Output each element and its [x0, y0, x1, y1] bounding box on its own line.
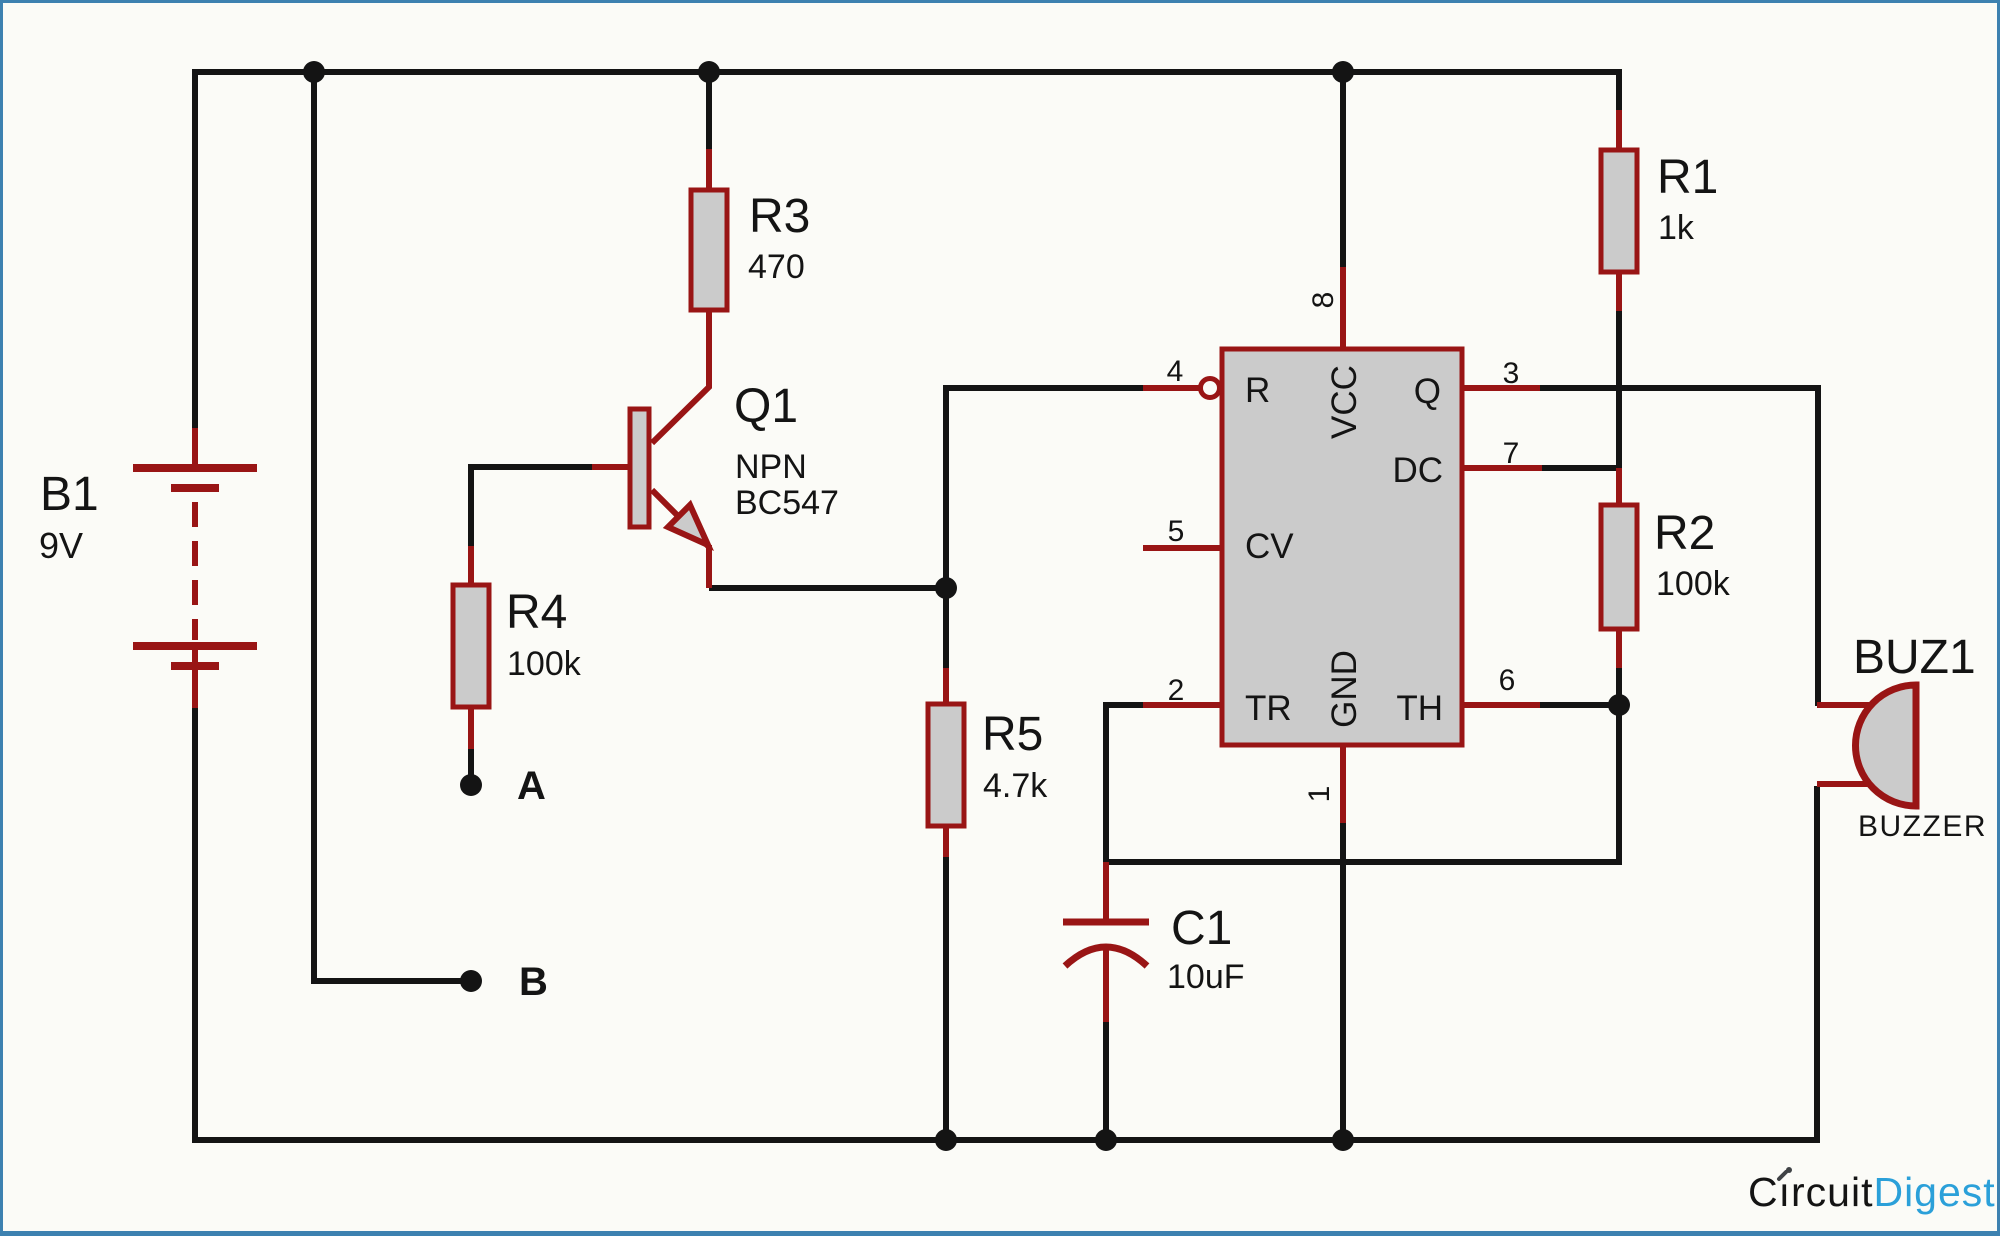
pin 7 DC stub: [1462, 465, 1542, 471]
svg-text:C1: C1: [1171, 902, 1232, 955]
wire: Q output to buzzer top: [1540, 388, 1818, 706]
svg-text:2: 2: [1168, 674, 1185, 707]
resistor R2: [1601, 468, 1637, 668]
svg-text:R1: R1: [1657, 151, 1718, 204]
svg-text:B: B: [519, 960, 548, 1004]
svg-text:BUZZER: BUZZER: [1858, 810, 1987, 843]
wire: R5 top black: [943, 588, 949, 668]
junction top rail R3: [698, 61, 720, 83]
pin 4 R stub: [1143, 385, 1200, 391]
junction ground R5: [935, 1129, 957, 1151]
junction emitter/R5/pin4: [935, 577, 957, 599]
wire: reset net from emitter junction up to pin 4: [946, 388, 1143, 588]
svg-text:4.7k: 4.7k: [983, 767, 1048, 805]
svg-text:CırcuitDigest: CırcuitDigest: [1748, 1169, 1996, 1215]
svg-text:7: 7: [1503, 437, 1520, 470]
node A: [460, 774, 482, 796]
wire: bottom ground rail from battery to buzzer: [195, 706, 1817, 1140]
wire: TR wire black: [1106, 705, 1143, 862]
pin 2 TR stub: [1143, 702, 1222, 708]
wire: top rail with left drop to battery and right drop to R1: [195, 72, 1619, 431]
wire: junction down and left to TR/C1 node: [1106, 705, 1619, 862]
wire: R4 bottom to node A: [468, 749, 474, 779]
svg-text:B1: B1: [40, 468, 99, 521]
svg-text:1k: 1k: [1658, 209, 1695, 247]
pin 3 Q stub: [1462, 385, 1540, 391]
svg-text:5: 5: [1168, 515, 1185, 548]
wire: base wire to R4: [471, 467, 592, 546]
resistor R4: [453, 546, 489, 749]
junction top rail left: [303, 61, 325, 83]
svg-text:A: A: [517, 764, 546, 808]
svg-text:10uF: 10uF: [1167, 958, 1245, 996]
resistor R5: [928, 668, 964, 857]
svg-text:R4: R4: [506, 586, 567, 639]
battery B1: [133, 428, 257, 708]
resistor R1: [1601, 110, 1637, 311]
svg-text:1: 1: [1303, 786, 1336, 803]
svg-text:TH: TH: [1396, 689, 1443, 728]
svg-text:BUZ1: BUZ1: [1853, 631, 1976, 684]
buzzer BUZ1: [1817, 685, 1916, 806]
svg-text:BC547: BC547: [735, 484, 839, 522]
svg-text:R: R: [1245, 371, 1270, 410]
svg-text:GND: GND: [1325, 650, 1364, 728]
pin 1 GND stub: [1340, 745, 1346, 823]
svg-text:DC: DC: [1392, 451, 1443, 490]
pin 6 TH stub: [1462, 702, 1540, 708]
svg-text:CV: CV: [1245, 527, 1294, 566]
svg-text:6: 6: [1499, 664, 1516, 697]
op-amp U1 555 timer body: [1222, 349, 1462, 745]
svg-text:R5: R5: [982, 708, 1043, 761]
wire: pin6 black to junction: [1540, 702, 1619, 708]
svg-text:4: 4: [1167, 355, 1184, 388]
svg-text:8: 8: [1307, 292, 1340, 309]
svg-text:R2: R2: [1654, 507, 1715, 560]
svg-text:NPN: NPN: [735, 448, 807, 486]
pin 4 inversion bubble: [1201, 379, 1220, 398]
node B: [460, 970, 482, 992]
resistor R3: [652, 149, 727, 443]
svg-text:TR: TR: [1245, 689, 1292, 728]
junction ground GND pin: [1332, 1129, 1354, 1151]
svg-text:470: 470: [748, 248, 805, 286]
svg-text:VCC: VCC: [1325, 365, 1364, 439]
logo CircuitDigest: [1748, 1167, 1996, 1215]
wire: left inner branch down to node B: [314, 72, 468, 981]
svg-text:3: 3: [1503, 357, 1520, 390]
wire: R1 bottom vertical crossing Q wire: [1616, 311, 1622, 468]
capacitor C1: [1063, 862, 1149, 1022]
wire: VCC riser (pin 8) black part: [1340, 72, 1346, 267]
svg-text:R3: R3: [749, 190, 810, 243]
wire: R2 bottom black: [1616, 668, 1622, 705]
svg-text:9V: 9V: [39, 525, 83, 566]
pin 8 VCC stub: [1340, 267, 1346, 349]
junction R2/TH: [1608, 694, 1630, 716]
pin 5 CV stub: [1143, 545, 1222, 551]
transistor Q1: [592, 409, 709, 588]
junction ground C1: [1095, 1129, 1117, 1151]
wire: R5 bottom to ground rail: [943, 857, 949, 1140]
wire: C1 bottom black: [1103, 1022, 1109, 1140]
svg-text:Q1: Q1: [734, 380, 798, 433]
wire: pin7 black to R1/R2 branch: [1542, 465, 1619, 471]
wire: GND (pin 1) black: [1340, 823, 1346, 1140]
svg-text:100k: 100k: [507, 645, 582, 683]
junction top rail VCC: [1332, 61, 1354, 83]
wire: emitter node horizontal: [709, 585, 946, 591]
svg-text:Q: Q: [1414, 372, 1441, 411]
svg-text:100k: 100k: [1656, 565, 1731, 603]
wire: R3 top stub: [706, 72, 712, 149]
